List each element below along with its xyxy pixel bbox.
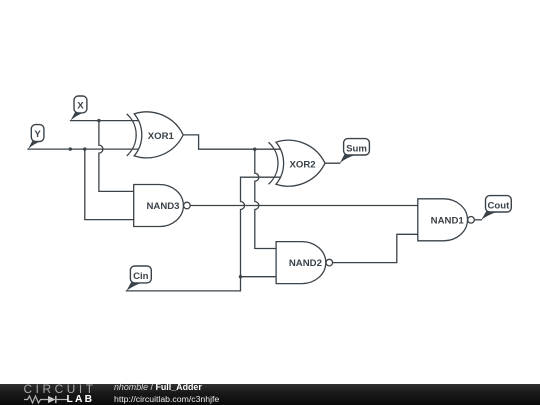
svg-text:Cout: Cout <box>487 201 510 212</box>
svg-text:Sum: Sum <box>346 143 367 154</box>
svg-text:X: X <box>77 101 84 112</box>
svg-text:Cin: Cin <box>133 271 149 282</box>
svg-text:XOR1: XOR1 <box>148 131 175 142</box>
svg-text:NAND2: NAND2 <box>289 258 322 269</box>
svg-text:NAND3: NAND3 <box>146 201 179 212</box>
svg-text:NAND1: NAND1 <box>431 215 465 226</box>
svg-text:Y: Y <box>34 129 41 140</box>
svg-text:XOR2: XOR2 <box>290 159 316 170</box>
